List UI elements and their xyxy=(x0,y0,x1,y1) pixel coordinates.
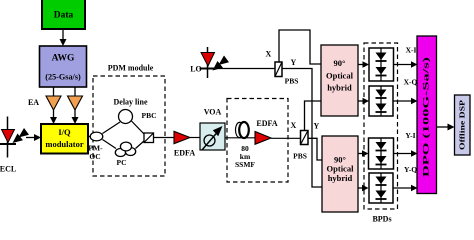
balanced photodetector BPD3 xyxy=(369,138,394,169)
wire signal Y to hybrid2 xyxy=(308,138,322,160)
wire PC to PBC xyxy=(136,141,145,149)
svg-text:Optical: Optical xyxy=(326,71,354,81)
svg-text:modulator: modulator xyxy=(45,139,83,149)
oscilloscope DPO box xyxy=(417,36,437,194)
laser LO xyxy=(200,47,230,78)
svg-text:Offline DSP: Offline DSP xyxy=(458,99,467,150)
svg-text:X: X xyxy=(291,121,297,130)
optical hybrid 1 xyxy=(321,45,358,116)
wire AWG to I/Q modulator (I arm) xyxy=(53,87,55,117)
combiner PBC xyxy=(144,133,154,143)
svg-text:EA: EA xyxy=(28,98,39,107)
wire hybrid2 out I to BPD3 xyxy=(358,153,363,155)
polarization controller PC loops xyxy=(115,142,135,156)
svg-text:VOA: VOA xyxy=(204,108,222,117)
svg-text:X-I: X-I xyxy=(406,46,417,55)
balanced photodetector BPD1 xyxy=(369,48,394,81)
svg-text:LO: LO xyxy=(190,65,202,74)
wire signal X to hybrid1 xyxy=(305,101,322,131)
svg-text:X-Q: X-Q xyxy=(404,78,418,87)
svg-text:EDFA: EDFA xyxy=(174,149,195,158)
wire upper branch to delay loop xyxy=(103,122,121,134)
optical hybrid 2 xyxy=(322,136,358,212)
splitter PBS LO xyxy=(275,62,282,77)
svg-text:DPO (100G-Sa/s): DPO (100G-Sa/s) xyxy=(421,57,431,177)
BPDs dashed box xyxy=(364,43,398,209)
amplifier EA 2 xyxy=(68,96,83,110)
svg-text:Y-I: Y-I xyxy=(405,131,415,140)
svg-text:Optical: Optical xyxy=(327,164,355,174)
splitter PBS signal xyxy=(301,131,309,145)
wire PBC to EDFA1 xyxy=(154,137,175,139)
svg-text:I/Q: I/Q xyxy=(58,127,71,137)
wire delay loop to PBC xyxy=(132,121,145,135)
svg-text:SSMF: SSMF xyxy=(235,160,255,169)
wire lower branch to PC xyxy=(103,140,117,149)
svg-text:PBC: PBC xyxy=(142,111,157,120)
wire Data to AWG xyxy=(62,29,64,39)
svg-text:AWG: AWG xyxy=(52,54,75,64)
coupler PM-OC xyxy=(90,132,103,141)
wire hybrid2 out Q to BPD4 xyxy=(358,187,363,189)
AWG box xyxy=(40,46,87,87)
Offline DSP box xyxy=(455,95,471,155)
wire LO to PBS xyxy=(217,68,276,70)
svg-text:ECL: ECL xyxy=(0,165,16,174)
svg-text:EDFA: EDFA xyxy=(256,119,277,128)
svg-text:PBS: PBS xyxy=(285,77,299,86)
wire modulator to PM-OC xyxy=(88,136,93,138)
svg-text:Y: Y xyxy=(314,122,320,131)
svg-text:hybrid: hybrid xyxy=(328,173,353,183)
amplifier EDFA 2 xyxy=(255,132,271,145)
svg-text:OC: OC xyxy=(89,152,100,161)
svg-text:Y: Y xyxy=(291,58,297,67)
fiber coil xyxy=(236,122,249,138)
svg-text:Data: Data xyxy=(54,11,74,21)
laser ECL xyxy=(0,117,29,158)
svg-text:X: X xyxy=(266,50,272,59)
wire DPO to Offline DSP xyxy=(437,126,448,128)
wire hybrid1 out Q to BPD2 xyxy=(358,100,363,102)
wire EDFA2 to PBS xyxy=(271,137,300,139)
wire EDFA1 to VOA xyxy=(190,137,200,139)
wire ECL to I/Q modulator xyxy=(26,137,34,139)
svg-text:90°: 90° xyxy=(334,58,346,68)
attenuator VOA xyxy=(200,123,225,150)
amplifier EDFA 1 xyxy=(174,131,190,143)
svg-text:PBS: PBS xyxy=(293,152,307,161)
wire LO X to hybrid1 xyxy=(279,30,321,64)
svg-text:BPDs: BPDs xyxy=(372,215,391,224)
balanced photodetector BPD4 xyxy=(369,173,393,203)
svg-text:Y-Q: Y-Q xyxy=(404,165,417,174)
I/Q modulator box xyxy=(41,124,88,154)
wire AWG to I/Q modulator (Q arm) xyxy=(74,87,76,117)
fiber span dashed box xyxy=(227,99,288,183)
svg-text:hybrid: hybrid xyxy=(327,83,352,93)
amplifier EA 1 xyxy=(46,96,61,110)
data source box xyxy=(42,0,85,29)
PDM module dashed box xyxy=(93,76,165,176)
balanced photodetector BPD2 xyxy=(369,86,393,116)
wire VOA to fiber xyxy=(225,137,256,139)
svg-text:Delay line: Delay line xyxy=(114,98,148,107)
svg-text:PC: PC xyxy=(117,158,127,167)
svg-text:(25-Gsa/s): (25-Gsa/s) xyxy=(45,73,81,82)
svg-text:PDM module: PDM module xyxy=(108,64,154,73)
wire LO Y to hybrid2 xyxy=(282,69,322,188)
wire hybrid1 out I to BPD1 xyxy=(358,64,363,66)
delay line loop xyxy=(119,110,133,124)
